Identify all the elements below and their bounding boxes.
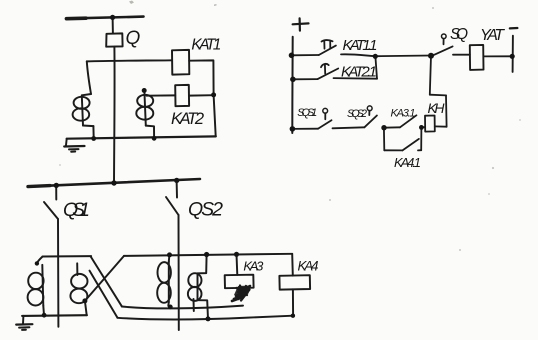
svg-text:QS2: QS2 (188, 199, 223, 221)
svg-text:SQ: SQ (450, 26, 468, 43)
svg-text:YAT: YAT (480, 27, 505, 44)
svg-text:KA4.1: KA4.1 (394, 155, 421, 170)
svg-text:SQS2: SQS2 (347, 108, 367, 120)
svg-text:KA3.1: KA3.1 (391, 108, 416, 120)
svg-text:SQS1: SQS1 (297, 107, 317, 119)
svg-text:KAT2.1: KAT2.1 (341, 64, 377, 81)
svg-text:QS1: QS1 (63, 199, 90, 221)
svg-text:Q: Q (126, 28, 141, 49)
svg-text:KA4: KA4 (298, 259, 319, 274)
svg-text:KH: KH (428, 100, 446, 116)
svg-text:KA3: KA3 (243, 258, 264, 273)
svg-text:KAT2: KAT2 (171, 110, 204, 128)
svg-text:KAT1: KAT1 (191, 36, 221, 53)
svg-text:KAT1.1: KAT1.1 (343, 37, 378, 54)
